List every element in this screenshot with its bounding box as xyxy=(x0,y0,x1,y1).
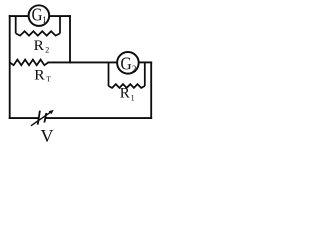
svg-text:R: R xyxy=(120,86,130,102)
battery plate long xyxy=(38,111,40,125)
svg-text:V: V xyxy=(41,126,54,144)
wire: bottom right (from battery) xyxy=(46,117,152,119)
wire: G2 right to right rail xyxy=(139,61,152,63)
resistor R2 (parallel with G1) xyxy=(16,16,60,35)
galvanometer G1 xyxy=(29,4,50,26)
galvanometer G2 xyxy=(117,52,139,74)
svg-text:R: R xyxy=(34,38,44,54)
svg-text:2: 2 xyxy=(132,64,137,74)
svg-text:T: T xyxy=(46,75,51,84)
label V xyxy=(41,126,54,146)
resistor R1 (parallel with G2) xyxy=(109,62,145,88)
svg-text:2: 2 xyxy=(45,46,49,55)
resistor RT (in middle wire) xyxy=(10,60,49,66)
wire: top right of G1 xyxy=(49,15,70,17)
variable arrow xyxy=(31,111,52,126)
svg-text:G: G xyxy=(32,4,43,24)
svg-text:R: R xyxy=(34,68,44,84)
wire: bottom left (to battery) xyxy=(10,117,39,119)
svg-text:1: 1 xyxy=(131,93,135,102)
wire: right rail xyxy=(150,62,152,118)
wire: G1-block right rail down to middle node xyxy=(69,16,71,62)
wire: top (node between G1 block and left rail) xyxy=(10,15,29,17)
svg-text:1: 1 xyxy=(42,15,47,25)
label R2 xyxy=(34,38,50,55)
svg-text:G: G xyxy=(121,54,133,74)
label RT xyxy=(34,68,51,84)
wire: left rail xyxy=(9,16,11,118)
wire: middle (RT to G2) xyxy=(48,61,117,63)
battery plate short xyxy=(44,113,46,123)
battery V (variable source) xyxy=(31,110,54,126)
label R1 xyxy=(120,86,135,103)
